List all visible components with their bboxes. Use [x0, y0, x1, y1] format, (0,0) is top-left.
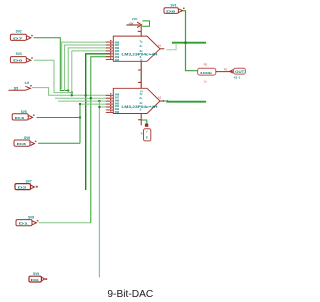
connector X3 (bit D5, flag style): [9, 81, 32, 90]
power pin V- of U2: [138, 114, 141, 126]
connector X6 (bit D2, unconnected): [15, 180, 38, 190]
wire U1 input bit e (pin5, heavy): [86, 54, 111, 190]
wire U1 input bit b (pin2): [65, 45, 111, 91]
svg-text:A2: A2: [158, 96, 162, 100]
svg-text:R1: R1: [204, 62, 208, 66]
svg-text:VCC: VCC: [132, 17, 138, 21]
junction at (85.7,95.3): [85, 94, 87, 96]
resistor R1: [198, 62, 233, 83]
svg-text:SV9: SV9: [33, 272, 39, 276]
svg-text:E: E: [146, 135, 148, 139]
junction at (71.8,95.3): [71, 94, 73, 96]
svg-text:-5: -5: [140, 131, 143, 135]
supply connector X10 (below U2): [140, 129, 151, 141]
wire net D4: [37, 117, 81, 119]
wire net D7: [34, 38, 69, 91]
svg-text:7c: 7c: [140, 40, 144, 44]
svg-text:D2: D2: [18, 186, 28, 190]
connector X2 (bit D6): [10, 52, 32, 63]
connector X7 (bit D1): [16, 215, 38, 225]
svg-text:X1-1: X1-1: [234, 76, 241, 80]
svg-text:SV3: SV3: [16, 52, 22, 56]
wire U2 input row r3: [58, 100, 111, 102]
svg-text:D0: D0: [31, 278, 40, 282]
wire U2 input row r4: [80, 103, 111, 105]
wire short net between U1 and U2 power pins: [140, 74, 142, 77]
junction at (99.4,101.1): [98, 100, 100, 102]
junction at (99.4,107): [98, 106, 100, 108]
svg-text:D1: D1: [19, 222, 29, 226]
svg-text:P1: P1: [224, 68, 228, 72]
wire U2 input row r5: [99, 106, 110, 108]
power pin V+ of U1: [138, 26, 142, 36]
svg-text:IN2: IN2: [115, 110, 120, 114]
svg-text:D7: D7: [13, 36, 23, 40]
pin numbers U2: [110, 93, 111, 111]
svg-text:D5: D5: [14, 86, 18, 90]
connector X8 (bit D0, bottom): [29, 272, 47, 282]
svg-text:2+: 2+: [140, 44, 144, 48]
connector X1 (bit D7): [10, 30, 32, 41]
wire net AOUT1 horizontal: [172, 42, 206, 44]
svg-text:SV8: SV8: [28, 215, 34, 219]
wire VCC hook to U1 V+ pin: [141, 21, 149, 26]
supply symbol VCC (above U1): [126, 17, 141, 27]
svg-text:2+: 2+: [140, 96, 144, 100]
wire net D0 riser (long light vertical): [98, 101, 100, 277]
junction at (185.5,42.7): [184, 41, 187, 44]
connector X11 (analog OUT, right): [230, 68, 246, 79]
wire U1 input bit a (pin1): [62, 42, 111, 89]
svg-text:OUT: OUT: [235, 70, 244, 74]
wire net D5: [32, 88, 111, 96]
wire hook to VEE supply: [141, 120, 146, 125]
wire net AOUT2 from U2 output: [167, 101, 207, 103]
wire U2 input row r2: [55, 97, 111, 99]
wire U1 input bit f (pin6): [91, 57, 111, 223]
svg-text:1k: 1k: [204, 80, 208, 84]
connector X5 (bit D3): [14, 136, 36, 146]
svg-text:IN2: IN2: [115, 58, 120, 62]
svg-text:SV1: SV1: [171, 3, 177, 7]
svg-text:D4: D4: [15, 116, 25, 120]
wire net D3: [38, 142, 80, 144]
svg-text:c.6: c.6: [25, 81, 30, 85]
supply symbol VEE arrow (below U2): [145, 124, 148, 127]
wire net D1: [39, 222, 91, 224]
wire net D6: [34, 60, 72, 92]
svg-text:V+: V+: [140, 89, 144, 93]
op-amp U2: [106, 88, 169, 114]
connector X9 (bit D8, top right): [164, 3, 185, 13]
junction at (70.7,93.6): [71, 91, 73, 93]
wire net D8 from X9 down to R1: [183, 11, 198, 71]
svg-text:100k: 100k: [200, 71, 213, 75]
svg-text:D6: D6: [13, 59, 23, 63]
svg-text:3c: 3c: [140, 49, 144, 53]
svg-text:V: V: [146, 130, 148, 134]
connector X4 (bit D4): [12, 110, 34, 120]
junction at (66.6,87): [67, 89, 69, 91]
svg-text:3c: 3c: [140, 101, 144, 105]
wire U1 input bit d (pin4): [72, 51, 111, 95]
wire U1 input bit c (pin3): [68, 48, 110, 91]
svg-text:A1: A1: [158, 43, 162, 47]
wire D4/D3 riser: [79, 104, 81, 143]
svg-text:3-: 3-: [140, 107, 143, 111]
svg-text:D8: D8: [166, 9, 176, 13]
pin numbers U1: [110, 40, 111, 59]
svg-text:D3: D3: [17, 142, 27, 146]
junction at (80,104.1): [79, 103, 81, 105]
junction at (90.8,98.2): [90, 97, 92, 99]
op-amp U1: [106, 36, 165, 62]
svg-text:9-Bit-DAC: 9-Bit-DAC: [107, 289, 153, 300]
svg-text:SV2: SV2: [16, 30, 22, 34]
junction at (80,117.5): [79, 116, 81, 118]
power pin V- of U1 / V+ of U2 (shared rail): [138, 61, 141, 88]
wire jog from U1 output: [167, 43, 177, 50]
